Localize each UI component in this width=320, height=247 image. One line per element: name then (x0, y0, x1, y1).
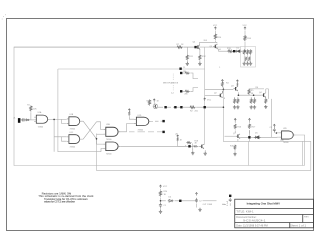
emitter resistor R13 (227, 50, 233, 52)
G2b output to dot (151, 120, 163, 122)
transistor Q7 (236, 134, 240, 139)
capacitor C2 (195, 198, 198, 202)
gate G4 U2A (103, 127, 120, 136)
Q2 base row (205, 95, 218, 97)
Qa (218, 93, 222, 98)
Q4 (196, 45, 200, 50)
resistor R17 (248, 123, 250, 129)
row y=107.2 from Q1 (158, 106, 223, 108)
VCC above C3 (273, 124, 275, 127)
gate G1 U1A (34, 115, 49, 123)
wire Q3 collector/emitter row (238, 83, 261, 95)
G2b inputs (129, 116, 134, 119)
gate G5 U2B (103, 142, 120, 151)
resistor R10 (214, 34, 216, 40)
G5 long output wire (120, 145, 186, 147)
resistor R7 (177, 46, 183, 48)
VCC above U1D (128, 109, 130, 112)
node R9 dot (180, 90, 182, 92)
wire bottom node row (161, 198, 197, 208)
VCC above R20 (159, 185, 161, 188)
VCC above Q1 (153, 99, 155, 102)
gate G3 U1C (67, 135, 82, 144)
wire VCC R14 drop (244, 31, 246, 52)
wire to U2A lower input (97, 133, 104, 135)
VCC above Q8 cluster (177, 135, 179, 138)
resistor Q8 base series (193, 145, 198, 147)
mid right verticals (271, 99, 273, 137)
resistor+ground stack b (237, 98, 239, 104)
svg-text:0.1uF: 0.1uF (227, 200, 229, 206)
capacitor C1 (159, 203, 162, 208)
svg-text:VCC: VCC (207, 99, 212, 101)
svg-text:TITLE: KIM-1: TITLE: KIM-1 (236, 210, 254, 213)
svg-text:Sheet 1 of 1: Sheet 1 of 1 (290, 224, 307, 227)
C2 column left of title block (229, 198, 232, 202)
node D4 output junction (179, 200, 181, 202)
resistor+ground stack d (253, 98, 255, 104)
svg-text:2-4: 2-4 (171, 93, 174, 95)
svg-text:74S00: 74S00 (70, 146, 75, 148)
resistor network Rc (250, 49, 252, 55)
diode D6 input (25, 119, 30, 121)
svg-text:74S00: 74S00 (70, 129, 75, 131)
G6 output down wire (295, 135, 304, 165)
node Q7 emitter junction (248, 136, 250, 138)
node Qbar output dot (162, 131, 164, 133)
wire to output label (203, 200, 214, 202)
node U1A output junction (53, 119, 55, 121)
input connector J1 (18, 118, 21, 123)
vertical from G1 out down to G3/G5 (53, 119, 55, 151)
node R4 junction (223, 89, 225, 91)
resistor network Rd (245, 56, 247, 61)
ground under R11 (186, 62, 189, 66)
input wire to G1 (20, 119, 36, 121)
VCC arrow left (214, 27, 216, 30)
node D1 junction (244, 50, 246, 52)
VCC above R17 (248, 118, 250, 121)
wire Q7 emitter row (235, 131, 254, 153)
svg-text:74S00: 74S00 (138, 129, 143, 131)
wire cross coupling up (81, 122, 96, 139)
top transistor row wires (14, 46, 195, 48)
wire stack stubs (235, 97, 266, 99)
wire R5 link and Q4b collector (249, 89, 268, 99)
corner speckle (2, 14, 7, 19)
gate G2b U1D (134, 117, 151, 125)
wire VCC R10 drop (215, 31, 217, 44)
svg-text:VCC: VCC (213, 25, 218, 27)
capacitor C4 input (21, 118, 26, 121)
resistor R1 (30, 105, 32, 111)
node emitter row junction (233, 50, 235, 52)
ground network c (249, 62, 252, 66)
bottom mid section (160, 189, 162, 210)
resistor network Rb (247, 49, 249, 55)
VCC comparator mid (236, 80, 238, 83)
pull-down stacks below row (186, 47, 188, 63)
svg-text:74S00: 74S00 (106, 139, 111, 141)
svg-text:VCC: VCC (163, 186, 168, 188)
svg-text:U1D: U1D (138, 115, 142, 117)
svg-text:values for C1-C2 are unknown: values for C1-C2 are unknown (44, 201, 76, 204)
VCC arrow right (244, 27, 246, 30)
gate G6 U2D (279, 131, 295, 139)
node loop B junction (179, 68, 181, 70)
wire to U2B lower input (101, 149, 104, 152)
node C1 junction (160, 200, 162, 202)
wire to U2B upper input (97, 139, 104, 144)
node Q4 base junction (194, 46, 196, 48)
capacitor C3 (273, 128, 276, 132)
resistor R12 (199, 55, 201, 61)
G1 output to gates (50, 119, 67, 123)
resistor R2 (189, 106, 195, 108)
box C (timing enclosure) (248, 141, 302, 165)
diode D5 (254, 136, 261, 139)
resistor R4 (221, 82, 223, 87)
Q5 (213, 44, 217, 49)
ground network a (243, 62, 246, 66)
diode D1 (235, 50, 241, 53)
resistor R14 (244, 35, 246, 41)
wire into G6 lower input (260, 136, 279, 138)
node row junction (223, 106, 225, 108)
resistor network Ra (243, 49, 245, 55)
resistor network Re (248, 56, 250, 61)
ground under Q8 row (191, 151, 194, 155)
node C3 junction (276, 132, 278, 134)
svg-text:SEE EXPLANATION: SEE EXPLANATION (163, 82, 179, 85)
svg-text:74S00: 74S00 (283, 142, 288, 144)
transistor Q8 (200, 144, 204, 149)
Q3 right (262, 93, 266, 98)
G4 output dashes to dot row (120, 124, 162, 132)
wire Q8 cluster (186, 144, 200, 151)
resistor small under VCC (237, 83, 238, 87)
svg-text:REV: REV (304, 217, 309, 219)
ground under R12 (198, 62, 201, 66)
resistor R16 (234, 124, 236, 130)
loop B: top, left, bottom (58, 47, 205, 145)
resistor above U1D (128, 111, 130, 116)
svg-text:Date: 11/3/1998 9:57:48 PM: Date: 11/3/1998 9:57:48 PM (236, 224, 268, 227)
resistor R20 (159, 190, 161, 196)
VCC at timing node (204, 98, 206, 101)
node R8 dot (180, 72, 182, 74)
node Q output dot (162, 120, 164, 122)
VCC above C2 (195, 193, 197, 196)
Q2/Q3 upper row (205, 88, 234, 90)
svg-text:74S00: 74S00 (106, 153, 111, 155)
wire VCC drop to Q8 row (178, 142, 186, 147)
big feedback loop C (97, 87, 311, 171)
svg-text:OUT 1.5MS: OUT 1.5MS (203, 204, 213, 206)
wire R16/R17 stubs (235, 121, 249, 133)
ground under C1 (159, 210, 162, 214)
node Q3 emitter junction (238, 94, 240, 96)
resistor+ground stack a (234, 98, 236, 104)
wire stub right (213, 200, 217, 202)
svg-text:U1C: U1C (70, 132, 74, 134)
gate G2 U1B (67, 117, 82, 126)
big loop box A (14, 47, 305, 165)
resistor above Q8 (177, 137, 179, 142)
svg-text:9-CS-AU5C4-1: 9-CS-AU5C4-1 (243, 219, 266, 222)
resistor R9 (185, 90, 190, 92)
VCC comparator left (221, 80, 223, 83)
resistor+ground stack c (250, 98, 252, 104)
Q2 (234, 86, 238, 91)
svg-text:1: 1 (219, 67, 220, 69)
wire Q7 base (225, 135, 236, 137)
resistor R18 (186, 142, 191, 144)
svg-text:U2D: U2D (283, 128, 287, 130)
node dot row y107 (164, 106, 166, 108)
G6 upper input (274, 127, 279, 133)
node latch junction (96, 138, 98, 140)
ground under Q8 emitter (204, 152, 207, 156)
node Q8 base junction (188, 145, 190, 147)
ground under R19 (233, 152, 236, 156)
svg-text:11: 11 (183, 67, 185, 69)
diode D4 (168, 199, 174, 202)
resistor R19 (234, 145, 236, 150)
svg-text:Integrating One Shot MMV: Integrating One Shot MMV (247, 202, 281, 206)
resistor R11 (186, 55, 188, 61)
cross coupling X (81, 121, 96, 139)
svg-text:74S00: 74S00 (38, 127, 43, 129)
wire R4 column stubs (222, 85, 224, 100)
ground network b (246, 62, 249, 66)
wire node to box C (248, 137, 250, 141)
wire Q4 collector link (200, 42, 218, 45)
wire to U1C inputs (54, 137, 67, 141)
wire Q5 emitter row (218, 50, 244, 52)
wire to U2A upper input (97, 122, 104, 130)
VCC above R16 (234, 118, 236, 121)
box resistor network (241, 47, 256, 68)
resistor+ground stack e (265, 98, 267, 104)
ground under C2 (198, 208, 201, 212)
resistor R5 (248, 89, 250, 95)
node R5 junction (253, 94, 255, 96)
node timing junction (204, 106, 206, 108)
